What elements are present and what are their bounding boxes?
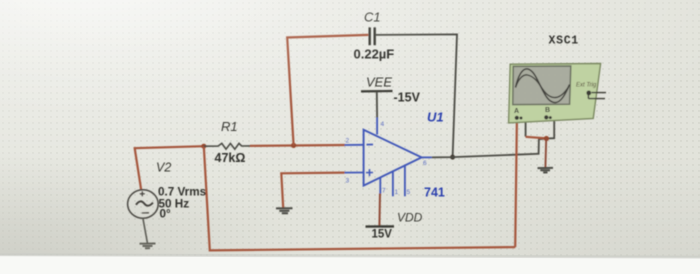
wire: scope A+ down to bottom rail bbox=[515, 120, 517, 248]
value -15V bbox=[394, 91, 421, 105]
node D: scope ground junction dot bbox=[544, 136, 549, 141]
plus mark bbox=[366, 172, 373, 174]
wire: A- to ground junction (red) bbox=[526, 137, 547, 139]
pin number 2 bbox=[346, 138, 350, 145]
sine trace 2 bbox=[516, 75, 570, 98]
wire: input net V2 top to R1 left junction bbox=[135, 146, 204, 190]
pin 2 stub bbox=[345, 144, 364, 146]
Ext Trig terminal bbox=[586, 91, 591, 96]
value 47kOhm bbox=[215, 151, 246, 165]
sine mark bbox=[136, 201, 153, 205]
svg-text:5: 5 bbox=[407, 189, 411, 196]
pin number 7 bbox=[382, 188, 386, 195]
svg-text:7: 7 bbox=[382, 188, 386, 195]
wire: op-amp output to scope channel B bbox=[432, 139, 547, 158]
minus mark inside bbox=[142, 212, 149, 214]
wire: C1 right to output junction bbox=[376, 34, 457, 157]
pin number 1 bbox=[395, 189, 399, 196]
value 0.7 Vrms bbox=[158, 186, 207, 199]
value 15V bbox=[372, 229, 393, 241]
power VDD bar bbox=[366, 225, 395, 228]
minus mark bbox=[367, 144, 374, 146]
wire: C1 left branch (junction up and over to capacitor) bbox=[287, 35, 368, 145]
label V2 bbox=[156, 161, 171, 175]
monitor bezel white band bbox=[0, 253, 700, 274]
oscilloscope XSC1 body bbox=[509, 64, 606, 123]
svg-text:15V: 15V bbox=[372, 229, 393, 241]
ground (scope) bbox=[538, 168, 554, 173]
ground (V2) bbox=[140, 244, 156, 249]
channel B terminals bbox=[544, 115, 548, 119]
resistor R1 bbox=[204, 143, 250, 149]
photo highlight wash over top-left bbox=[0, 0, 420, 160]
ground (mid, + input) bbox=[276, 208, 293, 213]
wire: junction down to scope ground bbox=[544, 139, 547, 168]
pin 3 stub bbox=[345, 172, 364, 174]
svg-text:XSC1: XSC1 bbox=[549, 35, 579, 48]
node C: output junction dot bbox=[450, 155, 455, 160]
value 50 Hz bbox=[159, 197, 190, 210]
sine trace 1 bbox=[516, 69, 570, 103]
label VEE bbox=[366, 75, 392, 90]
wire: V2 bottom to ground bbox=[143, 218, 148, 243]
value 0 deg bbox=[160, 208, 172, 221]
label 741 bbox=[424, 185, 445, 199]
pin number 4 bbox=[381, 121, 385, 128]
svg-text:A: A bbox=[514, 108, 519, 115]
label R1 bbox=[221, 119, 238, 134]
bottom pins 7,1,5 bbox=[379, 178, 381, 194]
svg-text:VDD: VDD bbox=[397, 211, 423, 225]
label VDD bbox=[397, 211, 423, 225]
power VEE bar bbox=[361, 91, 393, 118]
op-amp U1 bbox=[345, 118, 432, 197]
wire: R1 right to inverting input bbox=[250, 144, 345, 147]
wire: pin 7 down to VDD bbox=[378, 194, 381, 227]
svg-text:1: 1 bbox=[395, 189, 399, 196]
pin number 6 bbox=[423, 160, 427, 167]
label U1 bbox=[427, 109, 444, 124]
wire: scope B- jog bbox=[546, 120, 554, 139]
svg-text:3: 3 bbox=[346, 178, 350, 185]
svg-text:0°: 0° bbox=[160, 208, 172, 221]
label C1 bbox=[364, 10, 381, 25]
pin number 5 bbox=[407, 189, 411, 196]
capacitor C1 bbox=[370, 27, 375, 45]
wire: junction down to bottom rail bbox=[204, 146, 515, 250]
node B: junction dot at R1 right / C1 branch bbox=[291, 143, 296, 148]
plus mark inside bbox=[140, 193, 145, 195]
svg-text:V2: V2 bbox=[156, 161, 171, 175]
svg-text:U1: U1 bbox=[427, 109, 444, 124]
svg-text:B: B bbox=[545, 107, 550, 114]
pin number 3 bbox=[346, 178, 350, 185]
pin 6 stub bbox=[422, 156, 432, 158]
svg-text:741: 741 bbox=[424, 185, 445, 199]
svg-text:Ext Trig: Ext Trig bbox=[576, 83, 597, 89]
label XSC1 bbox=[549, 35, 579, 48]
node A: junction dot at R1 left bbox=[201, 144, 206, 149]
pin 4 stub bbox=[376, 118, 378, 135]
wire: non-inverting input to mid ground bbox=[281, 173, 344, 208]
source V2 bbox=[128, 190, 159, 218]
value 0.22uF bbox=[354, 46, 395, 61]
wire: scope A- jog bbox=[521, 119, 526, 136]
svg-text:6: 6 bbox=[423, 160, 427, 167]
channel A terminals bbox=[515, 116, 519, 120]
screen bbox=[513, 66, 571, 105]
